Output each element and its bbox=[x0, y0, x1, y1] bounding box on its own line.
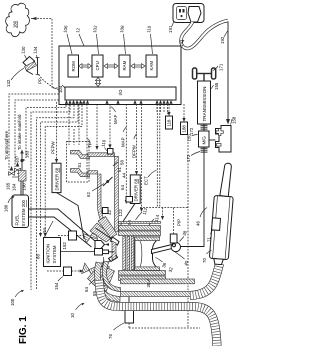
bus arrow CPU-I/O bbox=[95, 78, 100, 87]
svg-text:104: 104 bbox=[58, 85, 63, 93]
intake manifold top wall / head right wall bbox=[88, 153, 118, 232]
label 62 bbox=[86, 184, 104, 198]
svg-text:94: 94 bbox=[42, 228, 47, 233]
svg-text:114: 114 bbox=[154, 214, 161, 223]
wire TP to throttle bbox=[87, 104, 93, 179]
purge valve (bowtie) bbox=[9, 166, 15, 176]
dashed stubs under I/O right cluster bbox=[157, 104, 168, 114]
svg-text:70: 70 bbox=[202, 258, 207, 263]
canister valve dot 183 bbox=[20, 150, 29, 171]
intake valve bowtie bbox=[83, 230, 98, 243]
head left wall lower bbox=[112, 241, 116, 260]
intake valve spring (upper fan) bbox=[90, 217, 119, 246]
wire to cam sensor 112 bbox=[140, 104, 143, 212]
svg-text:61: 61 bbox=[117, 167, 122, 172]
dashed cascade wire to ignition b bbox=[45, 102, 82, 234]
bus arrow RAM-KAM bbox=[131, 64, 145, 69]
ROM 106 bbox=[68, 55, 79, 77]
exhaust passage lower wall bbox=[121, 292, 194, 297]
svg-text:MAP: MAP bbox=[121, 137, 126, 147]
svg-text:58: 58 bbox=[120, 160, 125, 165]
svg-text:IGNITION: IGNITION bbox=[46, 244, 51, 264]
fuel system 200 box bbox=[12, 195, 29, 228]
dashed cascade wire to vent valve bbox=[15, 100, 59, 167]
svg-text:116: 116 bbox=[101, 139, 107, 147]
label 112 bbox=[136, 207, 149, 220]
label 40 bbox=[175, 252, 190, 267]
exhaust runner curve bbox=[94, 261, 120, 302]
driver 68a (port injector) bbox=[52, 163, 84, 239]
driver 68b (direct injector) bbox=[123, 175, 140, 222]
dashed cascade wire long 2 bbox=[37, 102, 75, 290]
svg-text:ECT: ECT bbox=[144, 176, 149, 185]
throttle body dashed box 62 bbox=[67, 142, 90, 183]
label 46 bbox=[196, 208, 208, 227]
svg-text:ROM: ROM bbox=[71, 61, 76, 72]
svg-text:154: 154 bbox=[54, 282, 59, 290]
svg-text:SYSTEM 200: SYSTEM 200 bbox=[21, 199, 26, 226]
label 10 arrow bbox=[70, 303, 85, 318]
svg-text:152: 152 bbox=[62, 242, 67, 250]
fuel line lower bbox=[29, 217, 92, 247]
piston rings bbox=[123, 237, 134, 271]
svg-text:12: 12 bbox=[75, 27, 81, 33]
svg-text:10: 10 bbox=[70, 313, 75, 318]
svg-text:CPU: CPU bbox=[95, 61, 100, 70]
wires to throttle box bbox=[68, 104, 70, 145]
arrows into I/O bottom bbox=[65, 100, 173, 104]
wire MAP bbox=[121, 104, 128, 204]
throttle plate 64 bbox=[103, 177, 113, 186]
label 53 bbox=[119, 204, 135, 228]
cylinder bottom band bbox=[119, 271, 195, 284]
M/G to crank shaft wire bbox=[181, 154, 205, 247]
dashed PIP/exhaust sensor trunk bbox=[187, 136, 189, 328]
wire MAF bbox=[108, 104, 118, 149]
label 110 bbox=[146, 25, 152, 54]
svg-text:51: 51 bbox=[77, 162, 82, 167]
dashed cascade wire long 1 bbox=[31, 102, 70, 290]
intake manifold bottom wall / port wall bbox=[88, 171, 113, 233]
valve actuator 152 bbox=[58, 231, 89, 250]
svg-text:TP: TP bbox=[87, 142, 93, 149]
wire PFPW to driver 68a bbox=[51, 102, 59, 163]
cylinder head deck (top band) bbox=[119, 222, 161, 236]
svg-text:171: 171 bbox=[219, 63, 224, 71]
label 100 arrow bbox=[10, 290, 24, 306]
svg-text:183: 183 bbox=[25, 150, 30, 158]
label 38 bbox=[180, 230, 188, 242]
shaft 172 lower bbox=[186, 147, 208, 162]
svg-text:DRIVER 68: DRIVER 68 bbox=[134, 178, 139, 201]
wire cloud to controller (dashed with arrow into cloud) bbox=[31, 17, 65, 90]
dashed cascade wire to ignition a bbox=[41, 102, 79, 234]
ribbed elbow duct to muffler bbox=[190, 264, 220, 296]
exhaust valve bowtie bbox=[82, 263, 97, 277]
fuel line upper bbox=[29, 209, 96, 241]
svg-text:164: 164 bbox=[12, 183, 17, 191]
intake wall upper Z-end bbox=[71, 150, 90, 158]
svg-text:36: 36 bbox=[161, 262, 167, 269]
label 106 bbox=[63, 25, 72, 54]
svg-text:PIP: PIP bbox=[177, 219, 182, 226]
axle and wheels 171 bbox=[193, 63, 224, 81]
valve actuator 154 bbox=[47, 267, 84, 290]
KAM 110 bbox=[146, 55, 157, 77]
PIP sensor square bbox=[170, 208, 181, 244]
svg-text:191: 191 bbox=[168, 25, 173, 33]
RAM 108 bbox=[119, 55, 130, 77]
svg-text:122: 122 bbox=[118, 209, 123, 217]
small sensor box on head bbox=[126, 197, 133, 203]
ignition system 88 box bbox=[36, 221, 95, 267]
pedal sensor 134 bbox=[21, 46, 39, 60]
labels 58 61 44 bbox=[113, 160, 127, 178]
cloud 180 bbox=[6, 3, 30, 36]
label 114 bbox=[149, 214, 161, 226]
dashed cascade wire to canister line bbox=[26, 102, 66, 158]
fuel injector 66 bbox=[95, 241, 109, 249]
svg-text:165: 165 bbox=[6, 182, 11, 190]
svg-text:187: 187 bbox=[15, 155, 20, 163]
electrical outlet 191 bbox=[168, 4, 204, 34]
svg-text:46: 46 bbox=[196, 221, 201, 226]
label 132 bbox=[6, 68, 24, 87]
label 71 bbox=[207, 230, 214, 243]
crankshaft 38 bbox=[171, 242, 180, 251]
svg-text:TRANSMISSION: TRANSMISSION bbox=[202, 87, 207, 122]
svg-text:112: 112 bbox=[142, 207, 149, 216]
wire M/G to battery bbox=[209, 139, 216, 141]
svg-text:180: 180 bbox=[13, 20, 18, 28]
accelerator pedal 130 bbox=[25, 62, 37, 75]
shaft 172 upper bbox=[189, 124, 208, 135]
svg-text:188: 188 bbox=[182, 125, 187, 133]
svg-text:102: 102 bbox=[92, 25, 98, 34]
svg-text:193: 193 bbox=[179, 39, 184, 47]
svg-text:155: 155 bbox=[214, 82, 219, 90]
svg-text:38: 38 bbox=[182, 230, 188, 237]
svg-text:130: 130 bbox=[21, 46, 27, 54]
svg-text:76: 76 bbox=[108, 334, 113, 339]
piston 36 bbox=[135, 237, 160, 271]
svg-text:40: 40 bbox=[183, 260, 189, 267]
canister to fuel tank pipe bbox=[21, 181, 23, 195]
svg-text:RAM: RAM bbox=[122, 60, 127, 70]
fuel vapor canister 190 bbox=[12, 171, 27, 191]
spark plug 92 bbox=[95, 249, 115, 288]
svg-text:DFPW: DFPW bbox=[131, 144, 136, 158]
vent valve (bowtie) bbox=[15, 162, 21, 172]
energy storage device 158 bbox=[216, 116, 237, 152]
exhaust valve spring (lower fan) bbox=[88, 254, 118, 292]
wire to intake inlet bbox=[95, 104, 98, 150]
svg-text:186: 186 bbox=[4, 204, 9, 212]
PP signal wire bbox=[38, 75, 64, 95]
svg-text:PP: PP bbox=[38, 78, 43, 84]
svg-text:DRIVER 68: DRIVER 68 bbox=[55, 167, 60, 190]
intake wall lower Z-end bbox=[71, 169, 90, 177]
svg-text:42: 42 bbox=[107, 210, 112, 215]
I/O 104 bbox=[65, 87, 176, 100]
svg-text:71: 71 bbox=[207, 237, 212, 242]
svg-text:134: 134 bbox=[33, 46, 39, 54]
svg-text:192: 192 bbox=[220, 36, 225, 44]
dashed cascade wire to purge valve bbox=[9, 94, 59, 170]
pedal mount bracket bbox=[36, 58, 40, 75]
label 54 bbox=[84, 279, 96, 292]
motor/generator M/G 153 bbox=[187, 131, 210, 147]
plug 193 bbox=[179, 7, 228, 49]
connecting rod 40 bbox=[152, 244, 175, 254]
svg-text:158: 158 bbox=[232, 116, 237, 124]
bus arrow ROM-CPU bbox=[79, 64, 92, 69]
label 186 bbox=[4, 196, 15, 212]
exhaust gas sensor 76 bbox=[108, 297, 134, 339]
CPU 102 bbox=[92, 55, 103, 77]
svg-text:I/O: I/O bbox=[118, 89, 123, 95]
label 102 bbox=[92, 25, 98, 54]
svg-text:44: 44 bbox=[122, 173, 127, 178]
svg-text:54: 54 bbox=[84, 287, 89, 292]
svg-text:KAM: KAM bbox=[149, 61, 154, 71]
svg-text:172: 172 bbox=[189, 127, 194, 135]
driver foot 132 bbox=[23, 57, 35, 68]
svg-text:To atmosphere: To atmosphere bbox=[4, 130, 9, 160]
port sensor box bbox=[103, 208, 109, 214]
label 12 bbox=[75, 27, 84, 46]
svg-text:100: 100 bbox=[10, 298, 15, 306]
bus arrow CPU-RAM bbox=[104, 64, 118, 69]
svg-text:To intake manifold: To intake manifold bbox=[17, 114, 22, 150]
svg-text:FIG. 1: FIG. 1 bbox=[18, 316, 29, 344]
label 30 bbox=[146, 279, 151, 288]
svg-text:88: 88 bbox=[36, 254, 41, 259]
label 104 bbox=[58, 85, 65, 93]
tailpipe 48 bbox=[220, 163, 232, 197]
svg-text:32: 32 bbox=[168, 266, 174, 273]
svg-text:62: 62 bbox=[86, 192, 91, 197]
label 36 bbox=[156, 258, 168, 269]
sensor box 118 bbox=[166, 104, 173, 129]
svg-text:108: 108 bbox=[119, 25, 125, 34]
svg-text:SYSTEM: SYSTEM bbox=[52, 245, 57, 263]
wire ECT pair bbox=[144, 104, 165, 220]
svg-text:110: 110 bbox=[146, 25, 152, 33]
transmission 155 bbox=[198, 81, 220, 124]
svg-text:132: 132 bbox=[6, 79, 11, 87]
charge line 192 bbox=[226, 22, 230, 125]
svg-text:190: 190 bbox=[22, 183, 27, 191]
muffler 70 bbox=[209, 195, 233, 265]
controller 12 bbox=[59, 46, 181, 105]
svg-text:MAF: MAF bbox=[113, 114, 118, 124]
wire DFPW to driver 68b bbox=[131, 104, 138, 175]
svg-text:118: 118 bbox=[167, 119, 172, 127]
svg-text:30: 30 bbox=[146, 282, 151, 287]
svg-text:M/G: M/G bbox=[202, 136, 207, 145]
svg-text:64: 64 bbox=[120, 185, 125, 190]
svg-text:106: 106 bbox=[63, 25, 69, 34]
svg-text:FUEL: FUEL bbox=[15, 214, 20, 226]
label 108 bbox=[119, 25, 125, 54]
flexible ribbed pipe (engine to bottom-right exit) bbox=[99, 280, 217, 346]
svg-text:PFPW: PFPW bbox=[51, 140, 56, 154]
MAP tap fitting 116 bbox=[101, 139, 113, 154]
svg-text:172: 172 bbox=[186, 154, 191, 162]
sensor box 188 bbox=[181, 104, 188, 135]
label 70 bbox=[202, 250, 212, 263]
